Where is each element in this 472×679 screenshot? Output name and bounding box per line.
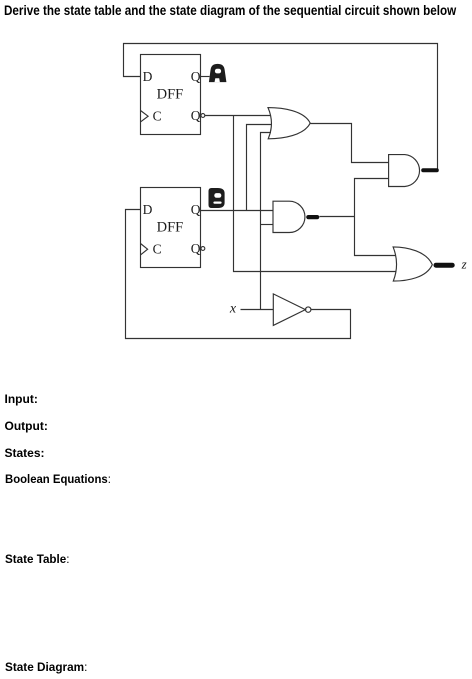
thick output stub of middle AND gate bbox=[308, 215, 317, 219]
wire: feedback from top AND gate output to DFF1 D input bbox=[124, 44, 438, 170]
svg-text:z: z bbox=[461, 257, 467, 272]
clock triangle on DFF2 pin C bbox=[141, 244, 148, 255]
wire: node x branch to middle AND gate input 2 bbox=[261, 224, 274, 226]
thick output stub of top AND gate bbox=[423, 168, 437, 172]
D flip-flop DFF2 (bottom) body bbox=[141, 188, 201, 268]
label States: bbox=[5, 446, 45, 460]
AND gate (middle) bbox=[273, 201, 305, 232]
clock triangle on DFF1 pin C bbox=[141, 111, 149, 122]
wire: DFF2 Q output (node B) to middle AND gate input 1 bbox=[201, 210, 274, 212]
thick output stub of output OR gate (z) bbox=[436, 263, 452, 268]
svg-text:D: D bbox=[143, 69, 153, 84]
wire: middle AND gate output to junction bbox=[320, 216, 355, 218]
svg-text:C: C bbox=[153, 241, 162, 256]
DFF2 Q' bubble bbox=[201, 247, 205, 251]
label Input: bbox=[5, 392, 38, 406]
svg-text:DFF: DFF bbox=[157, 220, 184, 236]
node B handwritten label at DFF2 Q bbox=[209, 188, 225, 208]
wire: middle AND output net to top AND input 2 and output OR input 1 bbox=[355, 179, 396, 256]
svg-text:C: C bbox=[153, 108, 162, 123]
node A handwritten label at DFF1 Q bbox=[209, 64, 227, 82]
svg-text:Q: Q bbox=[191, 108, 201, 123]
wire: node x branch up to top OR gate input 3 bbox=[261, 133, 272, 310]
title text bbox=[4, 2, 456, 18]
svg-text:Q: Q bbox=[191, 69, 201, 84]
label Output: bbox=[5, 419, 48, 433]
OR gate (output gate z) bbox=[393, 247, 432, 281]
wire: top OR gate output to top AND gate input 1 bbox=[310, 124, 389, 163]
inverter output bubble bbox=[306, 307, 311, 312]
wire: DFF1 Q' to top OR gate input 1 bbox=[205, 115, 271, 117]
wire: inverter output to DFF2 D input bbox=[126, 210, 351, 339]
label State Table: bbox=[5, 552, 69, 566]
svg-text:Q: Q bbox=[191, 241, 201, 256]
svg-text:x: x bbox=[229, 301, 237, 316]
DFF1 Q' bubble bbox=[201, 114, 205, 118]
wire: x input to inverter bbox=[241, 309, 274, 311]
label Boolean Equations: bbox=[5, 472, 111, 486]
wire: node B branch up to top OR gate input 2 bbox=[247, 125, 272, 211]
svg-text:DFF: DFF bbox=[157, 87, 184, 103]
label State Diagram: bbox=[5, 660, 87, 674]
wire: DFF1 Q output stub to node A bbox=[201, 76, 210, 78]
D flip-flop DFF1 (top) body bbox=[141, 55, 201, 135]
AND gate (top right) bbox=[389, 155, 420, 187]
svg-text:D: D bbox=[143, 202, 153, 217]
inverter (x input) bbox=[273, 294, 305, 326]
svg-text:Q: Q bbox=[191, 202, 201, 217]
wire: vertical A' branch down to output OR gate input 2 bbox=[234, 116, 397, 272]
OR gate (3-input, top) bbox=[268, 108, 310, 139]
